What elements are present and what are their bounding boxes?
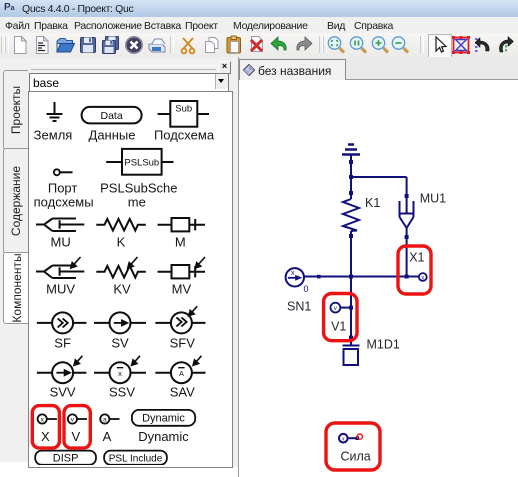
- svg-text:MU1: MU1: [420, 192, 446, 206]
- SSV symbol: [94, 372, 146, 374]
- svg-text:me: me: [128, 194, 146, 209]
- red highlight palette X: [32, 406, 59, 449]
- svg-text:Земля: Земля: [34, 128, 73, 143]
- SV symbol: [94, 322, 146, 324]
- svg-text:X1: X1: [409, 250, 424, 264]
- svg-text:a: a: [103, 417, 107, 424]
- svg-text:PSLSubSche: PSLSubSche: [100, 180, 177, 195]
- A symbol: [100, 414, 109, 423]
- svg-text:Sub: Sub: [175, 104, 192, 115]
- svg-text:SFV: SFV: [170, 336, 196, 351]
- svg-text:Подсхема: Подсхема: [154, 128, 215, 143]
- svg-text:A: A: [103, 429, 112, 444]
- MU symbol: [36, 219, 84, 232]
- port symbol: [54, 169, 60, 175]
- wire K1 to node: [350, 231, 352, 277]
- MV symbol: [158, 266, 205, 277]
- wire damper to node: [406, 228, 408, 277]
- Sub box: [158, 113, 209, 115]
- ground: [342, 145, 360, 155]
- DISP button: [35, 451, 96, 465]
- wire ground to junction: [350, 156, 352, 200]
- svg-text:MV: MV: [172, 282, 192, 297]
- X1 sensor: [419, 273, 427, 281]
- red highlight palette V: [64, 406, 90, 449]
- SAV symbol: [155, 372, 205, 374]
- svg-text:DISP: DISP: [53, 453, 79, 465]
- svg-text:SVV: SVV: [50, 385, 76, 400]
- svg-text:Data: Data: [101, 110, 123, 122]
- MUV symbol: [36, 266, 84, 279]
- svg-text:x: x: [118, 371, 122, 378]
- svg-text:Порт: Порт: [48, 180, 78, 195]
- source SN1: [286, 268, 304, 286]
- PSLSub box: [106, 161, 173, 163]
- mass M1D1: [343, 345, 360, 347]
- svg-text:Dynamic: Dynamic: [138, 429, 189, 444]
- svg-text:PSLSub: PSLSub: [124, 158, 159, 169]
- V1 sensor: [331, 303, 341, 313]
- svg-text:X: X: [41, 429, 50, 444]
- V symbol: [68, 414, 77, 423]
- svg-text:Dynamic: Dynamic: [142, 413, 185, 425]
- K symbol: [96, 219, 146, 231]
- ground symbol: [47, 102, 63, 121]
- Sila sensor: [339, 434, 348, 443]
- svg-text:v: v: [334, 306, 337, 312]
- svg-text:SF: SF: [54, 336, 71, 351]
- svg-text:MUV: MUV: [46, 282, 75, 297]
- X symbol: [38, 414, 47, 423]
- node dots: [317, 160, 409, 340]
- svg-text:M: M: [175, 235, 186, 250]
- svg-text:V1: V1: [331, 319, 346, 333]
- svg-text:V: V: [71, 429, 80, 444]
- PSL Include button: [104, 451, 167, 465]
- red highlight V1: [324, 294, 357, 341]
- svg-text:A: A: [179, 371, 184, 378]
- small letters inside sensors: [118, 371, 184, 378]
- Data rounded box: [82, 107, 142, 124]
- damper MU1: [400, 177, 414, 228]
- SN1 inner arrow: [288, 277, 297, 279]
- M symbol: [158, 219, 205, 230]
- svg-text:x: x: [421, 275, 424, 281]
- spring K1: [343, 199, 359, 231]
- svg-text:x: x: [291, 270, 295, 277]
- svg-text:K1: K1: [365, 196, 380, 210]
- svg-text:PSL Include: PSL Include: [109, 453, 163, 464]
- svg-text:MU: MU: [50, 235, 70, 250]
- svg-text:SV: SV: [111, 336, 129, 351]
- variable arrows: [71, 257, 205, 365]
- svg-text:K: K: [117, 235, 126, 250]
- svg-text:x: x: [342, 437, 345, 443]
- svg-text:0: 0: [304, 284, 309, 294]
- chevrons inside SF: [58, 317, 187, 327]
- vertical wire to mass: [350, 277, 352, 346]
- KV symbol: [96, 266, 146, 278]
- V1 stub: [340, 307, 351, 309]
- wire junction right: [351, 176, 407, 178]
- SFV symbol: [155, 322, 205, 324]
- svg-text:Данные: Данные: [89, 128, 136, 143]
- SVV symbol: [37, 372, 87, 374]
- Dynamic button: [132, 410, 195, 426]
- svg-text:SSV: SSV: [109, 385, 135, 400]
- SF symbol: [37, 322, 87, 324]
- red highlight X1: [398, 246, 431, 294]
- svg-text:подсхемы: подсхемы: [34, 194, 94, 209]
- svg-text:SN1: SN1: [287, 300, 311, 314]
- symbol inner texts: [101, 110, 123, 122]
- red highlight Sila: [326, 423, 380, 470]
- svg-text:M1D1: M1D1: [367, 338, 400, 352]
- svg-text:SAV: SAV: [170, 385, 195, 400]
- arrow inside SV: [56, 320, 127, 375]
- svg-text:KV: KV: [113, 282, 131, 297]
- svg-text:Сила: Сила: [341, 450, 371, 464]
- component labels: [34, 128, 215, 444]
- main horizontal wire: [305, 276, 420, 278]
